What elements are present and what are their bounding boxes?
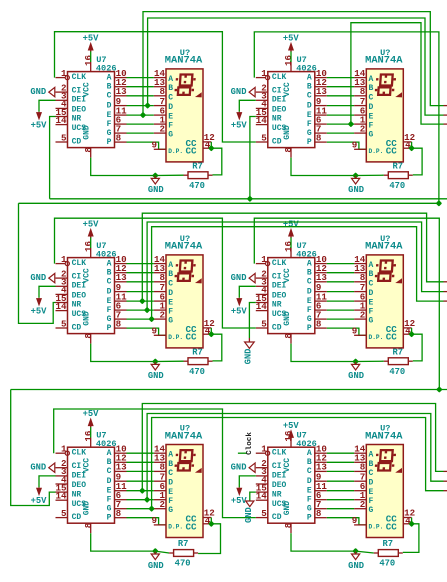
svg-text:5: 5 <box>61 508 67 519</box>
svg-text:A: A <box>369 261 374 270</box>
svg-text:CLK: CLK <box>272 259 287 268</box>
svg-text:B: B <box>369 270 374 279</box>
svg-text:F: F <box>307 120 312 129</box>
svg-text:A: A <box>168 75 173 84</box>
svg-text:8: 8 <box>83 522 94 528</box>
svg-text:B: B <box>307 82 312 91</box>
svg-text:CI: CI <box>272 462 282 471</box>
svg-text:9: 9 <box>151 139 157 150</box>
svg-text:D: D <box>307 477 312 486</box>
svg-text:4: 4 <box>205 515 211 526</box>
svg-text:MAN74A: MAN74A <box>365 430 403 442</box>
svg-text:C: C <box>369 279 374 288</box>
svg-text:D.P.: D.P. <box>369 148 384 155</box>
svg-text:5: 5 <box>261 508 267 519</box>
svg-text:16: 16 <box>283 55 294 66</box>
svg-text:5: 5 <box>261 132 267 143</box>
svg-text:2: 2 <box>360 309 366 320</box>
svg-text:F: F <box>369 497 374 506</box>
svg-text:GND: GND <box>148 561 164 571</box>
svg-text:D: D <box>168 479 173 488</box>
svg-text:4: 4 <box>205 326 211 337</box>
svg-text:F: F <box>168 308 173 317</box>
svg-text:CLK: CLK <box>272 449 287 458</box>
svg-text:D: D <box>107 101 112 110</box>
svg-text:16: 16 <box>283 241 294 252</box>
svg-text:GND: GND <box>148 185 164 195</box>
svg-text:GND: GND <box>148 371 164 381</box>
svg-text:E: E <box>107 297 112 306</box>
svg-text:14: 14 <box>256 301 268 312</box>
svg-text:4: 4 <box>405 515 411 526</box>
svg-text:14: 14 <box>256 491 268 502</box>
svg-text:B: B <box>168 84 173 93</box>
svg-text:C: C <box>107 92 112 101</box>
svg-text:+5V: +5V <box>231 496 248 506</box>
svg-text:CD: CD <box>72 324 82 333</box>
svg-text:4026: 4026 <box>96 439 117 449</box>
svg-text:470: 470 <box>189 367 205 377</box>
svg-text:A: A <box>369 451 374 460</box>
svg-text:R7: R7 <box>192 161 203 171</box>
svg-text:1: 1 <box>261 254 267 265</box>
svg-text:CC: CC <box>386 332 398 343</box>
svg-text:CD: CD <box>272 513 282 522</box>
svg-text:GND: GND <box>348 561 364 571</box>
svg-text:GND: GND <box>231 463 247 473</box>
svg-text:C: C <box>307 278 312 287</box>
svg-text:8: 8 <box>116 508 122 519</box>
svg-text:CD: CD <box>72 138 82 147</box>
svg-text:P: P <box>107 513 112 522</box>
svg-text:2: 2 <box>159 499 165 510</box>
svg-text:GND: GND <box>83 125 92 140</box>
svg-text:R7: R7 <box>393 161 404 171</box>
svg-text:F: F <box>307 495 312 504</box>
svg-text:A: A <box>307 73 312 82</box>
svg-text:GND: GND <box>30 87 46 97</box>
svg-text:A: A <box>168 451 173 460</box>
svg-text:F: F <box>307 306 312 315</box>
svg-text:CC: CC <box>386 521 398 532</box>
svg-text:9: 9 <box>352 325 358 336</box>
svg-text:E: E <box>369 299 374 308</box>
svg-text:G: G <box>369 317 374 326</box>
svg-text:P: P <box>107 324 112 333</box>
svg-text:R7: R7 <box>192 347 203 357</box>
svg-text:E: E <box>307 486 312 495</box>
svg-text:MAN74A: MAN74A <box>365 241 403 253</box>
svg-text:F: F <box>168 497 173 506</box>
svg-text:F: F <box>168 122 173 131</box>
svg-text:CD: CD <box>272 138 282 147</box>
svg-text:8: 8 <box>316 132 322 143</box>
svg-text:A: A <box>369 75 374 84</box>
svg-text:F: F <box>107 495 112 504</box>
svg-text:14: 14 <box>256 115 268 126</box>
svg-text:E: E <box>369 488 374 497</box>
svg-text:+5V: +5V <box>283 421 300 431</box>
svg-text:D.P.: D.P. <box>369 524 384 531</box>
svg-text:MAN74A: MAN74A <box>365 55 403 67</box>
svg-text:+5V: +5V <box>231 307 248 317</box>
svg-text:DEO: DEO <box>272 481 287 490</box>
svg-text:1: 1 <box>261 444 267 455</box>
svg-text:F: F <box>369 122 374 131</box>
svg-text:B: B <box>168 270 173 279</box>
svg-text:4026: 4026 <box>296 439 317 449</box>
svg-text:CI: CI <box>272 273 282 282</box>
svg-text:GND: GND <box>30 463 46 473</box>
svg-text:CI: CI <box>72 87 82 96</box>
svg-text:E: E <box>107 111 112 120</box>
svg-text:VCC: VCC <box>83 268 92 283</box>
svg-text:VCC: VCC <box>283 82 292 97</box>
svg-text:G: G <box>307 315 312 324</box>
svg-text:E: E <box>369 113 374 122</box>
svg-text:470: 470 <box>175 559 191 569</box>
svg-text:D: D <box>369 479 374 488</box>
svg-text:GND: GND <box>283 501 292 516</box>
svg-text:8: 8 <box>83 333 94 339</box>
svg-text:G: G <box>107 129 112 138</box>
svg-text:16: 16 <box>83 431 94 442</box>
svg-text:MAN74A: MAN74A <box>165 55 203 67</box>
svg-text:A: A <box>307 259 312 268</box>
svg-text:4: 4 <box>405 140 411 151</box>
svg-text:F: F <box>107 120 112 129</box>
svg-text:GND: GND <box>30 273 46 283</box>
svg-text:MAN74A: MAN74A <box>165 430 203 442</box>
svg-text:+5V: +5V <box>83 409 100 419</box>
svg-text:14: 14 <box>55 115 67 126</box>
svg-text:G: G <box>168 506 173 515</box>
svg-text:D.P.: D.P. <box>168 524 183 531</box>
svg-text:1: 1 <box>61 254 67 265</box>
svg-text:G: G <box>307 504 312 513</box>
svg-text:CLK: CLK <box>72 449 87 458</box>
svg-text:+5V: +5V <box>31 121 48 131</box>
svg-text:8: 8 <box>116 132 122 143</box>
svg-text:CI: CI <box>72 273 82 282</box>
svg-text:E: E <box>168 488 173 497</box>
svg-text:P: P <box>307 138 312 147</box>
svg-text:A: A <box>107 259 112 268</box>
svg-text:8: 8 <box>283 147 294 153</box>
svg-text:D: D <box>369 289 374 298</box>
svg-text:D: D <box>107 287 112 296</box>
svg-text:P: P <box>307 513 312 522</box>
svg-text:G: G <box>307 129 312 138</box>
svg-text:B: B <box>369 460 374 469</box>
svg-text:CC: CC <box>186 521 198 532</box>
svg-text:GND: GND <box>283 311 292 326</box>
svg-text:D.P.: D.P. <box>168 334 183 341</box>
svg-text:4: 4 <box>205 140 211 151</box>
svg-text:VCC: VCC <box>283 268 292 283</box>
svg-text:F: F <box>107 306 112 315</box>
svg-text:8: 8 <box>283 333 294 339</box>
svg-text:9: 9 <box>151 325 157 336</box>
svg-text:4026: 4026 <box>96 250 117 260</box>
svg-text:D: D <box>168 289 173 298</box>
svg-text:VCC: VCC <box>83 458 92 473</box>
svg-text:CC: CC <box>386 146 398 157</box>
svg-text:C: C <box>107 467 112 476</box>
svg-text:C: C <box>168 93 173 102</box>
svg-text:GND: GND <box>83 311 92 326</box>
svg-text:CLK: CLK <box>72 73 87 82</box>
svg-text:470: 470 <box>389 367 405 377</box>
svg-text:G: G <box>168 131 173 140</box>
svg-text:9: 9 <box>352 139 358 150</box>
svg-text:C: C <box>307 467 312 476</box>
svg-text:+5V: +5V <box>83 219 100 229</box>
svg-text:1: 1 <box>61 444 67 455</box>
svg-text:GND: GND <box>83 501 92 516</box>
svg-text:B: B <box>307 458 312 467</box>
svg-text:GND: GND <box>283 125 292 140</box>
svg-text:1: 1 <box>261 68 267 79</box>
svg-text:C: C <box>369 469 374 478</box>
svg-text:E: E <box>307 111 312 120</box>
svg-text:VCC: VCC <box>283 458 292 473</box>
svg-text:D: D <box>307 287 312 296</box>
svg-text:GND: GND <box>231 87 247 97</box>
svg-text:CC: CC <box>186 146 198 157</box>
svg-text:5: 5 <box>61 132 67 143</box>
svg-text:CC: CC <box>186 332 198 343</box>
svg-text:D: D <box>107 477 112 486</box>
svg-text:DEO: DEO <box>72 481 87 490</box>
svg-text:NR: NR <box>272 115 282 124</box>
svg-text:14: 14 <box>55 301 67 312</box>
svg-text:B: B <box>168 460 173 469</box>
svg-text:E: E <box>168 299 173 308</box>
svg-text:CI: CI <box>272 87 282 96</box>
svg-text:9: 9 <box>151 515 157 526</box>
svg-text:8: 8 <box>316 318 322 329</box>
svg-text:470: 470 <box>389 181 405 191</box>
svg-text:CLK: CLK <box>272 73 287 82</box>
svg-text:D: D <box>307 101 312 110</box>
svg-text:G: G <box>369 131 374 140</box>
svg-text:CD: CD <box>72 513 82 522</box>
svg-text:C: C <box>168 469 173 478</box>
svg-text:P: P <box>307 324 312 333</box>
svg-text:VCC: VCC <box>83 82 92 97</box>
svg-text:DEO: DEO <box>272 291 287 300</box>
svg-text:+5V: +5V <box>283 33 300 43</box>
svg-text:E: E <box>107 486 112 495</box>
svg-text:GND: GND <box>244 349 254 365</box>
svg-text:R7: R7 <box>383 539 394 549</box>
svg-text:2: 2 <box>360 499 366 510</box>
svg-text:R7: R7 <box>178 539 189 549</box>
svg-text:+5V: +5V <box>83 33 100 43</box>
svg-text:NR: NR <box>72 490 82 499</box>
svg-text:8: 8 <box>83 147 94 153</box>
svg-text:C: C <box>168 279 173 288</box>
svg-text:E: E <box>168 113 173 122</box>
svg-text:C: C <box>369 93 374 102</box>
svg-text:+5V: +5V <box>31 496 48 506</box>
svg-text:A: A <box>168 261 173 270</box>
svg-text:4026: 4026 <box>96 64 117 74</box>
svg-text:A: A <box>107 73 112 82</box>
svg-text:9: 9 <box>352 515 358 526</box>
svg-text:G: G <box>369 506 374 515</box>
svg-text:2: 2 <box>360 123 366 134</box>
svg-text:+5V: +5V <box>231 121 248 131</box>
svg-text:4026: 4026 <box>296 250 317 260</box>
svg-text:C: C <box>307 92 312 101</box>
svg-text:GND: GND <box>244 507 254 523</box>
svg-text:CLK: CLK <box>72 259 87 268</box>
svg-text:CI: CI <box>72 462 82 471</box>
svg-text:D: D <box>168 103 173 112</box>
svg-text:Clock: Clock <box>246 432 254 455</box>
svg-text:8: 8 <box>116 318 122 329</box>
svg-text:16: 16 <box>83 55 94 66</box>
svg-text:G: G <box>107 315 112 324</box>
svg-text:470: 470 <box>379 559 395 569</box>
svg-text:1: 1 <box>61 68 67 79</box>
svg-text:B: B <box>107 268 112 277</box>
svg-text:D: D <box>369 103 374 112</box>
svg-text:5: 5 <box>261 318 267 329</box>
svg-text:MAN74A: MAN74A <box>165 241 203 253</box>
svg-text:GND: GND <box>348 185 364 195</box>
svg-text:470: 470 <box>189 181 205 191</box>
svg-text:P: P <box>107 138 112 147</box>
svg-text:B: B <box>369 84 374 93</box>
svg-text:NR: NR <box>272 301 282 310</box>
svg-text:14: 14 <box>55 491 67 502</box>
svg-text:DEO: DEO <box>72 105 87 114</box>
svg-text:F: F <box>369 308 374 317</box>
svg-text:G: G <box>168 317 173 326</box>
svg-text:4: 4 <box>405 326 411 337</box>
svg-text:16: 16 <box>83 241 94 252</box>
svg-text:GND: GND <box>348 371 364 381</box>
svg-text:B: B <box>107 82 112 91</box>
svg-text:B: B <box>307 268 312 277</box>
svg-text:B: B <box>107 458 112 467</box>
svg-text:D.P.: D.P. <box>369 334 384 341</box>
svg-text:8: 8 <box>283 522 294 528</box>
svg-text:+5V: +5V <box>31 307 48 317</box>
svg-text:A: A <box>107 449 112 458</box>
svg-text:2: 2 <box>159 309 165 320</box>
svg-text:DEO: DEO <box>72 291 87 300</box>
svg-text:G: G <box>107 504 112 513</box>
svg-text:NR: NR <box>72 301 82 310</box>
svg-text:NR: NR <box>72 115 82 124</box>
svg-text:NR: NR <box>272 490 282 499</box>
svg-text:5: 5 <box>61 318 67 329</box>
svg-text:DEO: DEO <box>272 105 287 114</box>
svg-text:2: 2 <box>159 123 165 134</box>
svg-text:+5V: +5V <box>283 219 300 229</box>
svg-text:GND: GND <box>231 273 247 283</box>
svg-text:CD: CD <box>272 324 282 333</box>
svg-text:D.P.: D.P. <box>168 148 183 155</box>
svg-text:A: A <box>307 449 312 458</box>
svg-text:C: C <box>107 278 112 287</box>
svg-text:R7: R7 <box>393 347 404 357</box>
svg-text:8: 8 <box>316 508 322 519</box>
svg-text:4026: 4026 <box>296 64 317 74</box>
svg-text:E: E <box>307 297 312 306</box>
